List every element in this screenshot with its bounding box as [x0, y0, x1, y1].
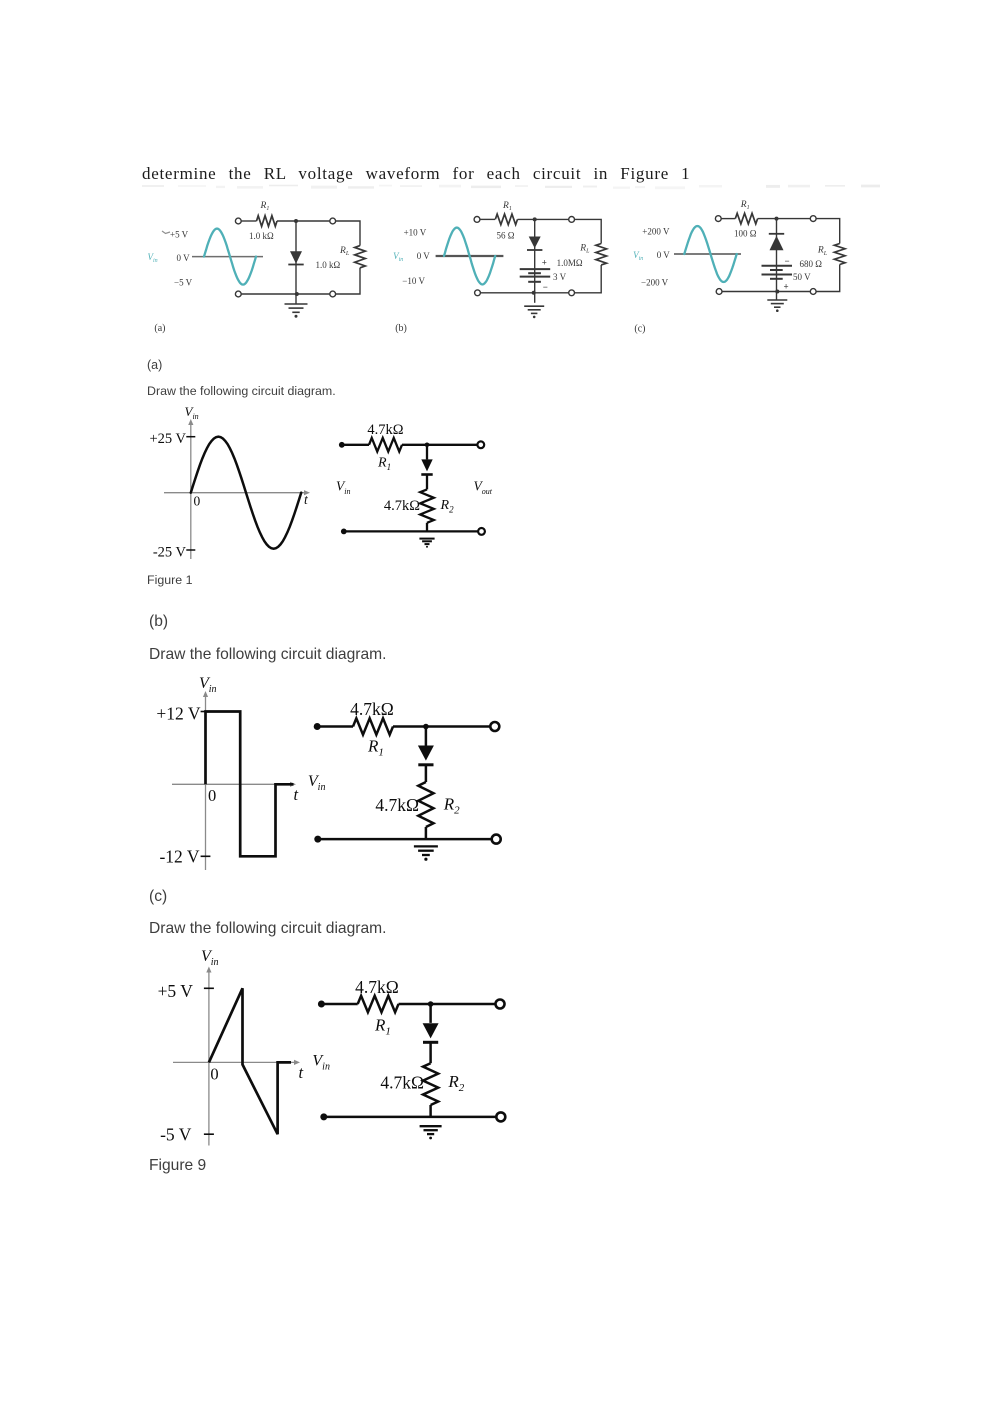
- svg-text:0 V: 0 V: [657, 250, 671, 260]
- svg-text:Vin: Vin: [633, 250, 643, 262]
- svg-text:56 Ω: 56 Ω: [497, 231, 515, 241]
- svg-text:-12 V: -12 V: [159, 847, 199, 867]
- svg-text:R2: R2: [447, 1072, 464, 1094]
- svg-text:4.7kΩ: 4.7kΩ: [384, 498, 420, 514]
- svg-text:R2: R2: [443, 795, 460, 817]
- svg-text:+5 V: +5 V: [158, 981, 194, 1001]
- svg-text:−: −: [785, 256, 790, 266]
- svg-text:RL: RL: [579, 244, 590, 255]
- svg-text:Vout: Vout: [474, 479, 493, 496]
- svg-text:t: t: [299, 1063, 304, 1082]
- svg-text:Vin: Vin: [199, 675, 217, 695]
- svg-text:R1: R1: [367, 737, 384, 759]
- svg-text:Vin: Vin: [312, 1052, 330, 1072]
- svg-text:+5 V: +5 V: [170, 230, 189, 240]
- svg-text:+12 V: +12 V: [156, 704, 200, 724]
- svg-text:+: +: [784, 282, 789, 292]
- svg-text:(c): (c): [634, 323, 645, 334]
- svg-text:3 V: 3 V: [553, 272, 567, 282]
- svg-text:Vin: Vin: [393, 251, 403, 263]
- svg-text:t: t: [304, 492, 309, 507]
- svg-text:(a): (a): [154, 323, 165, 334]
- svg-text:4.7kΩ: 4.7kΩ: [375, 795, 419, 815]
- svg-text:+: +: [542, 258, 547, 268]
- svg-text:t: t: [294, 785, 299, 804]
- svg-text:R1: R1: [260, 201, 270, 212]
- svg-text:Vin: Vin: [308, 773, 326, 793]
- svg-text:4.7kΩ: 4.7kΩ: [350, 699, 394, 719]
- svg-text:RL: RL: [339, 246, 350, 257]
- svg-text:100 Ω: 100 Ω: [734, 229, 757, 239]
- svg-text:Vin: Vin: [185, 404, 199, 421]
- svg-text:−: −: [543, 282, 548, 292]
- svg-text:0: 0: [208, 786, 216, 805]
- svg-text:R1: R1: [374, 1016, 391, 1038]
- svg-text:R1: R1: [740, 200, 750, 211]
- svg-text:4.7kΩ: 4.7kΩ: [380, 1073, 424, 1093]
- svg-text:Vin: Vin: [201, 948, 219, 968]
- svg-text:0 V: 0 V: [177, 253, 191, 263]
- svg-text:-5 V: -5 V: [160, 1125, 192, 1145]
- svg-text:Vin: Vin: [336, 479, 350, 496]
- svg-text:+10 V: +10 V: [404, 228, 427, 238]
- svg-text:R1: R1: [502, 201, 512, 212]
- svg-text:1.0MΩ: 1.0MΩ: [557, 258, 583, 268]
- svg-text:0: 0: [194, 494, 201, 509]
- svg-text:+25 V: +25 V: [149, 431, 186, 447]
- svg-text:4.7kΩ: 4.7kΩ: [355, 977, 399, 997]
- svg-text:Vin: Vin: [148, 252, 158, 264]
- svg-text:R1: R1: [377, 456, 391, 473]
- svg-text:1.0 kΩ: 1.0 kΩ: [249, 231, 274, 241]
- svg-text:RL: RL: [817, 246, 828, 257]
- svg-text:50 V: 50 V: [793, 272, 811, 282]
- svg-text:−10 V: −10 V: [402, 276, 425, 286]
- svg-text:-25 V: -25 V: [153, 545, 187, 561]
- svg-text:0: 0: [210, 1065, 218, 1084]
- svg-text:4.7kΩ: 4.7kΩ: [367, 422, 403, 438]
- svg-text:R2: R2: [440, 498, 455, 515]
- svg-text:−200 V: −200 V: [641, 277, 669, 287]
- svg-text:−5 V: −5 V: [174, 278, 193, 288]
- svg-text:1.0 kΩ: 1.0 kΩ: [316, 260, 341, 270]
- svg-text:(b): (b): [395, 323, 407, 334]
- svg-text:0 V: 0 V: [417, 251, 431, 261]
- svg-text:+200 V: +200 V: [642, 226, 670, 236]
- svg-text:680 Ω: 680 Ω: [800, 259, 823, 269]
